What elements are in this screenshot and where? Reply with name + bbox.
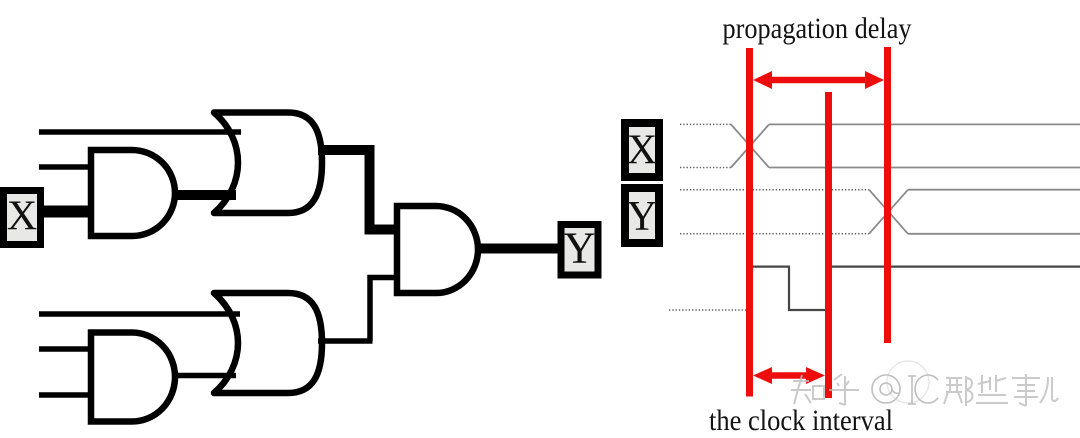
watermark <box>791 361 1058 406</box>
or-gate O1 <box>214 113 322 214</box>
wire: OR2 output <box>318 338 373 344</box>
and-gate A2 <box>91 333 175 422</box>
wire: clock dotted rail <box>669 309 747 311</box>
and-gate A1 <box>91 150 175 236</box>
wire: X old-value dotted rails <box>680 123 731 125</box>
wire: AND1 output to OR1 (bold) <box>173 190 236 200</box>
char hu <box>829 374 859 405</box>
wire: clock waveform <box>751 267 1080 310</box>
wire: AND2 bottom input <box>39 392 91 398</box>
wire: bottom long input to OR2 <box>39 311 240 317</box>
wire: Y transition cross <box>869 190 908 234</box>
wire: bold into AND3 top input <box>365 225 400 235</box>
marker red line middle <box>825 92 832 398</box>
wire: AND3 output to Y (bold) <box>476 244 562 254</box>
wire: thin vertical from OR2 output up <box>367 275 373 341</box>
and-gate A3 (output gate) <box>397 206 478 293</box>
char zhi <box>791 375 811 404</box>
wire: X new-value rails <box>769 123 1080 125</box>
node Y box <box>561 225 598 276</box>
node X label box <box>625 123 659 177</box>
wire: top input to OR1 <box>39 129 241 135</box>
char shi <box>1012 374 1040 406</box>
wire: Y new-value rails <box>908 189 1080 191</box>
wire: Y old-value dotted rails <box>680 189 869 191</box>
svg-text:the clock interval: the clock interval <box>709 404 893 437</box>
wire: AND2 top input <box>39 346 91 352</box>
svg-text:X: X <box>7 194 37 240</box>
clock interval arrow <box>768 372 810 379</box>
svg-text:Y: Y <box>564 224 596 273</box>
wire: AND2 output to OR2 <box>173 373 236 379</box>
svg-text:propagation delay: propagation delay <box>723 12 912 45</box>
wire: thin into AND3 bottom input <box>368 275 400 281</box>
wire: OR1 output (bold) <box>318 145 375 155</box>
propagation delay arrow <box>768 77 869 84</box>
marker red line right <box>884 47 891 343</box>
faint circle <box>887 361 929 403</box>
char xie <box>976 375 1008 403</box>
at I C <box>872 375 938 404</box>
node X box <box>4 191 41 245</box>
svg-text:X: X <box>627 128 657 174</box>
char er <box>1040 377 1058 403</box>
node Y label box <box>625 188 659 243</box>
svg-text:Y: Y <box>627 194 657 240</box>
wire: X transition cross <box>731 124 769 167</box>
or-gate O2 <box>214 293 322 393</box>
wire: bold vertical down <box>365 145 375 235</box>
marker red line left <box>746 48 753 397</box>
wire: X box to AND1 (bold) <box>40 206 94 218</box>
wire: AND1 top input <box>39 164 91 170</box>
char na <box>944 376 973 406</box>
